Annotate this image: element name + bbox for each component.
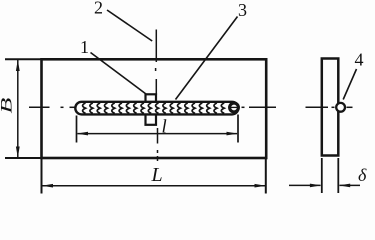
plate front view outline — [42, 59, 267, 158]
dimension line B — [16, 60, 20, 158]
extension line top-left for B — [5, 58, 42, 60]
backing tab (item 1) — [146, 94, 157, 125]
L dimension extension lines — [42, 158, 266, 194]
delta dimension line with outside arrows — [289, 184, 360, 188]
horizontal centerline left — [29, 106, 76, 108]
svg-text:2: 2 — [94, 0, 103, 18]
leader line 1 — [91, 53, 147, 95]
l dimension extension lines — [77, 115, 239, 143]
leader line 2 — [107, 10, 152, 41]
leader line 3 — [176, 17, 238, 100]
tick through ring — [231, 106, 238, 108]
leader line 4 — [343, 69, 356, 100]
side view centerline — [306, 106, 353, 108]
weld crater ring at right end — [230, 103, 239, 112]
L dimension line — [42, 184, 266, 188]
svg-text:δ: δ — [358, 165, 367, 185]
weld cross-section circle (item 4) — [336, 103, 345, 112]
delta dimension extension lines — [322, 158, 339, 193]
side view plate — [322, 59, 339, 156]
l dimension line — [77, 132, 238, 136]
svg-text:3: 3 — [238, 0, 247, 20]
weld bead body — [75, 102, 238, 115]
svg-text:B: B — [0, 98, 15, 114]
vertical centerline — [156, 30, 158, 162]
svg-text:4: 4 — [355, 50, 364, 70]
svg-text:1: 1 — [80, 37, 89, 57]
weld bead scallop texture — [83, 103, 225, 113]
horizontal centerline right — [242, 106, 277, 108]
extension line bottom-left for B — [5, 157, 42, 159]
svg-text:L: L — [151, 164, 163, 186]
svg-text:l: l — [162, 117, 167, 138]
